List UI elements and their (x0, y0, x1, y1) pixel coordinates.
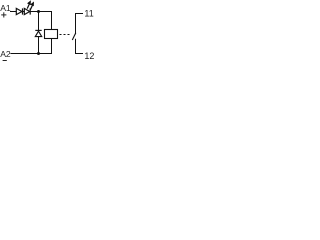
contact moving blade (72, 33, 76, 40)
contact top terminal wire (76, 14, 84, 35)
relay coil K1 (45, 30, 58, 39)
wire diode to bottom rail (38, 37, 40, 54)
svg-text:12: 12 (84, 51, 94, 61)
node junction bottom (37, 52, 40, 55)
minus polarity mark (3, 60, 7, 62)
svg-text:11: 11 (84, 9, 93, 19)
svg-text:A1: A1 (0, 3, 11, 13)
LED indicator diode (24, 8, 30, 14)
wire between diodes (23, 11, 25, 13)
freewheeling diode V2 (35, 30, 41, 36)
wire A1 to diode (10, 11, 17, 13)
coil top lead (51, 11, 53, 30)
bottom rail wire (10, 53, 52, 55)
plus polarity mark (1, 12, 6, 17)
diode V1 (series protection) (16, 8, 22, 14)
background (0, 0, 100, 67)
LED light arrows (27, 2, 33, 10)
node junction top (37, 10, 40, 13)
mechanical link (dashed) (60, 34, 71, 36)
contact bottom terminal wire (76, 39, 84, 54)
wire down to freewheeling diode (38, 12, 40, 31)
wire LED to coil branch (30, 11, 51, 13)
svg-text:A2: A2 (0, 49, 11, 59)
coil bottom lead (51, 39, 53, 55)
